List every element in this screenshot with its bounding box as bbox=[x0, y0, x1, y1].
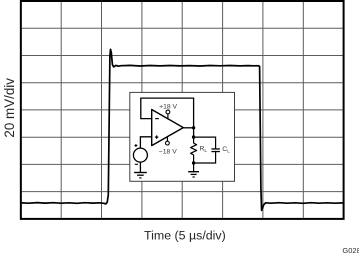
inset schematic panel bbox=[130, 92, 235, 181]
+18V supply stub bbox=[167, 114, 169, 119]
wire: resistor top stub bbox=[193, 137, 195, 143]
wire: capacitor bottom branch bbox=[194, 152, 216, 163]
op-amp inverting input sign bbox=[155, 118, 159, 120]
node: output junction bbox=[192, 126, 195, 129]
capacitor CL bbox=[211, 149, 220, 152]
svg-text:Time (5 µs/div): Time (5 µs/div) bbox=[144, 229, 226, 243]
ground (load) bbox=[188, 172, 199, 177]
svg-text:−18 V: −18 V bbox=[159, 149, 177, 156]
node: load bottom junction bbox=[192, 161, 195, 164]
source ground stub bbox=[139, 162, 141, 172]
grid horizontal lines bbox=[22, 28, 343, 191]
waveform trace bbox=[21, 49, 344, 210]
source + polarity sign bbox=[135, 144, 138, 147]
-18V supply terminal bbox=[166, 141, 170, 145]
source - polarity sign bbox=[135, 163, 138, 165]
op-amp U1 bbox=[152, 110, 184, 146]
-18V supply stub bbox=[166, 137, 168, 142]
wire: non-inverting input to source bbox=[140, 137, 151, 148]
svg-text:+18 V: +18 V bbox=[159, 104, 177, 111]
svg-text:20 mV/div: 20 mV/div bbox=[2, 78, 17, 138]
wire: op-amp output bbox=[183, 127, 193, 129]
load ground stub bbox=[193, 163, 195, 172]
wire: output node to load tee bbox=[193, 128, 195, 137]
ground (source) bbox=[134, 173, 147, 178]
wire: resistor bottom stub bbox=[193, 155, 195, 163]
wire: feedback loop from inverting input to output node bbox=[141, 98, 194, 128]
svg-text:G028: G028 bbox=[342, 246, 359, 254]
voltage source V1 bbox=[133, 148, 147, 162]
grid vertical lines bbox=[61, 2, 303, 218]
plot border bbox=[21, 1, 344, 219]
+18V supply terminal bbox=[166, 110, 170, 114]
resistor RL bbox=[191, 143, 197, 155]
wire: capacitor top branch bbox=[194, 137, 216, 149]
op-amp non-inverting input sign bbox=[155, 135, 159, 138]
node: load tee junction bbox=[192, 135, 195, 138]
